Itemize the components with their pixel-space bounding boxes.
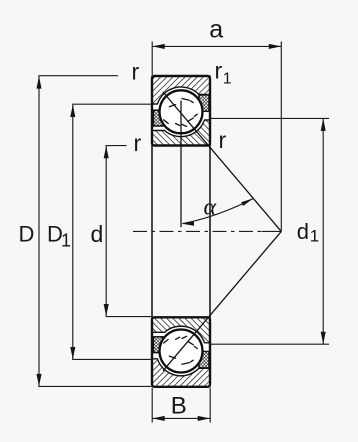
svg-text:r: r	[215, 58, 223, 84]
svg-text:a: a	[209, 16, 223, 44]
svg-text:1: 1	[61, 231, 71, 251]
svg-text:1: 1	[223, 71, 232, 88]
svg-text:D: D	[19, 222, 35, 247]
svg-text:r: r	[134, 130, 142, 156]
svg-text:r: r	[132, 59, 140, 85]
svg-text:1: 1	[310, 227, 319, 246]
svg-text:α: α	[204, 195, 217, 221]
svg-text:r: r	[219, 127, 227, 153]
svg-text:d: d	[297, 219, 309, 244]
svg-text:d: d	[91, 221, 104, 247]
svg-text:B: B	[171, 393, 187, 420]
